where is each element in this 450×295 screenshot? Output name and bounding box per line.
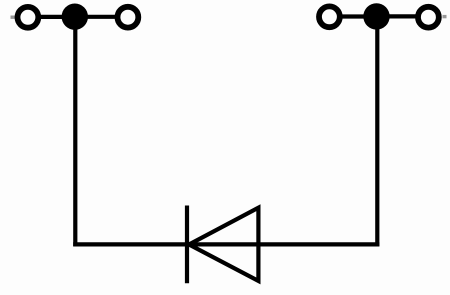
junction dot (right clamp) [363, 3, 389, 29]
wire: right vertical drop [375, 25, 379, 246]
junction dot (left clamp) [62, 4, 88, 30]
wire: left vertical drop [73, 25, 77, 246]
left lead-out stub [11, 16, 16, 19]
wire: right inner circle to right junction dot [342, 14, 366, 18]
wire: bottom horizontal bus [73, 242, 379, 246]
right lead-out stub [443, 15, 447, 18]
terminal contact circle (left outer) [18, 7, 39, 28]
diode D1 cathode bar [185, 206, 189, 284]
terminal contact circle (left inner) [118, 7, 139, 28]
terminal contact circle (right outer) [418, 7, 439, 28]
diode D1 anode triangle [189, 208, 258, 281]
wire: left outer circle to left junction dot [41, 15, 64, 19]
wire: right junction dot to right outer circle [389, 14, 417, 18]
terminal contact circle (right inner) [319, 6, 340, 27]
wire: left junction dot to left inner circle [87, 15, 117, 19]
